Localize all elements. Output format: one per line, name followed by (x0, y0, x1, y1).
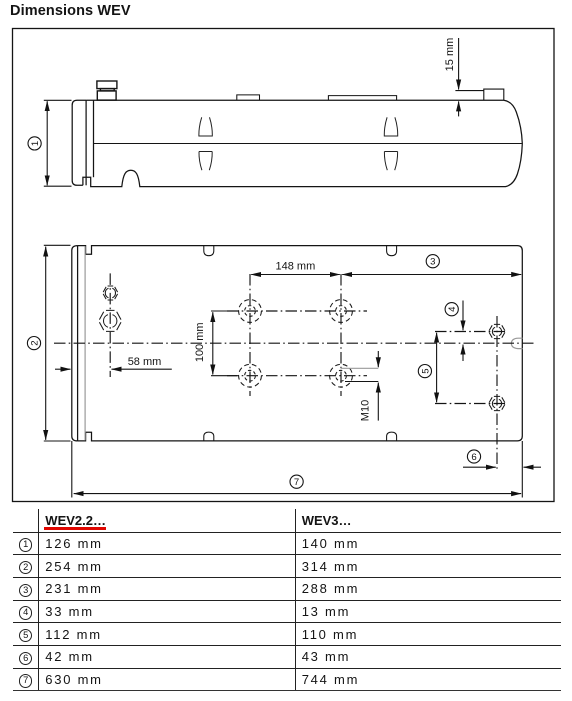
svg-text:7: 7 (294, 477, 299, 488)
callout circle 1 (28, 137, 41, 150)
dim 100mm line (212, 312, 214, 374)
screw column line right (340, 274, 342, 396)
hex nut right lower (489, 396, 505, 410)
title (10, 3, 131, 19)
top bump small (237, 95, 260, 100)
side view inner left edge line (93, 100, 95, 177)
callout circle 3 (426, 255, 439, 268)
plan bottom slot 2 (387, 432, 397, 441)
dimension table (13, 509, 561, 691)
right hex column line (496, 316, 498, 472)
svg-text:M10: M10 (360, 400, 372, 421)
dim 2 extension bottom (44, 440, 71, 442)
plan body outline (78, 246, 523, 441)
dim 5 line (436, 333, 438, 403)
right hex row line upper (435, 331, 508, 333)
callout circle 5 (418, 365, 431, 378)
screw hole bottom-right (330, 364, 353, 387)
dim 2 line (45, 247, 47, 440)
screw base (97, 91, 116, 100)
dim 7 extension left (71, 441, 73, 498)
screw hole top-right (330, 300, 353, 323)
hex nut small upper-left (103, 286, 117, 300)
svg-text:1: 1 (30, 141, 41, 146)
dim 6 left arrow (463, 466, 496, 468)
dim 7 line (74, 493, 521, 495)
dim 15mm upper arrow (458, 38, 460, 90)
callout circle 7 (290, 475, 303, 488)
dim 15mm lower arrow (458, 101, 460, 116)
vent leaf upper 2 (384, 117, 397, 136)
step surface line (15mm level) (455, 90, 483, 92)
callout circle 2 (27, 337, 40, 350)
side view cap right edge (85, 100, 87, 185)
vent leaf lower 2 (384, 152, 397, 171)
top bump wide (328, 96, 396, 101)
dim 4 upper arrow (462, 301, 464, 331)
hex nut right upper (489, 324, 505, 338)
svg-text:100 mm: 100 mm (194, 322, 206, 362)
M10 leader upper (gray) (341, 367, 378, 369)
vent leaf upper 1 (199, 117, 212, 136)
right edge notch (gray) (511, 338, 522, 348)
centre line horizontal (54, 342, 537, 344)
hex nut large left (99, 310, 121, 331)
dim 3 line (342, 274, 521, 276)
M10 upper arrow (377, 351, 379, 367)
callout circle 6 (467, 450, 480, 463)
dim 1 extension bottom (44, 185, 72, 187)
svg-text:4: 4 (447, 306, 458, 312)
dim 100mm tick lower (211, 375, 237, 377)
dim 58mm left arrow (55, 368, 71, 370)
plan bottom slot 1 (204, 432, 214, 441)
svg-text:148 mm: 148 mm (276, 261, 316, 273)
screw row line upper (227, 310, 367, 312)
plan top slot 2 (387, 246, 397, 256)
screw row line lower (227, 375, 367, 377)
dim 1 extension top (44, 99, 72, 101)
M10 lower arrow (377, 383, 379, 421)
side view body outline (83, 100, 522, 186)
top-right tab rect (484, 89, 504, 100)
callout circle 4 (445, 303, 458, 316)
outer frame (13, 29, 555, 502)
dim 148mm line (251, 274, 340, 276)
svg-text:58 mm: 58 mm (128, 356, 162, 368)
screw head (97, 81, 117, 89)
vent leaf lower 1 (199, 152, 212, 171)
dim 4 lower arrow (462, 345, 464, 361)
side view left cap (72, 100, 86, 185)
svg-text:2: 2 (30, 340, 41, 345)
plan left cap (72, 246, 78, 441)
svg-text:5: 5 (420, 368, 431, 373)
svg-text:6: 6 (471, 452, 476, 463)
side view mid split line (94, 143, 522, 145)
dim 1 line (46, 101, 48, 185)
screw neck (100, 89, 114, 91)
red underline under WEV2.2 (44, 527, 107, 530)
right hex row line lower (435, 403, 508, 405)
plan body left inner edge (gray) (84, 246, 86, 440)
screw column line left (249, 274, 251, 396)
plan top slot 1 (204, 246, 214, 256)
dim 58mm right arrow (112, 368, 172, 370)
M10 leader lower (345, 381, 378, 383)
svg-text:3: 3 (430, 257, 435, 268)
dim 7 extension right (521, 441, 523, 498)
hex column centre line (109, 273, 111, 377)
svg-text:15 mm: 15 mm (444, 38, 456, 72)
dim 2 extension top (44, 244, 71, 246)
screw hole top-left (239, 300, 262, 323)
dim 100mm tick upper (211, 310, 237, 312)
screw hole bottom-left (239, 364, 262, 387)
dim 6 right arrow (524, 466, 542, 468)
